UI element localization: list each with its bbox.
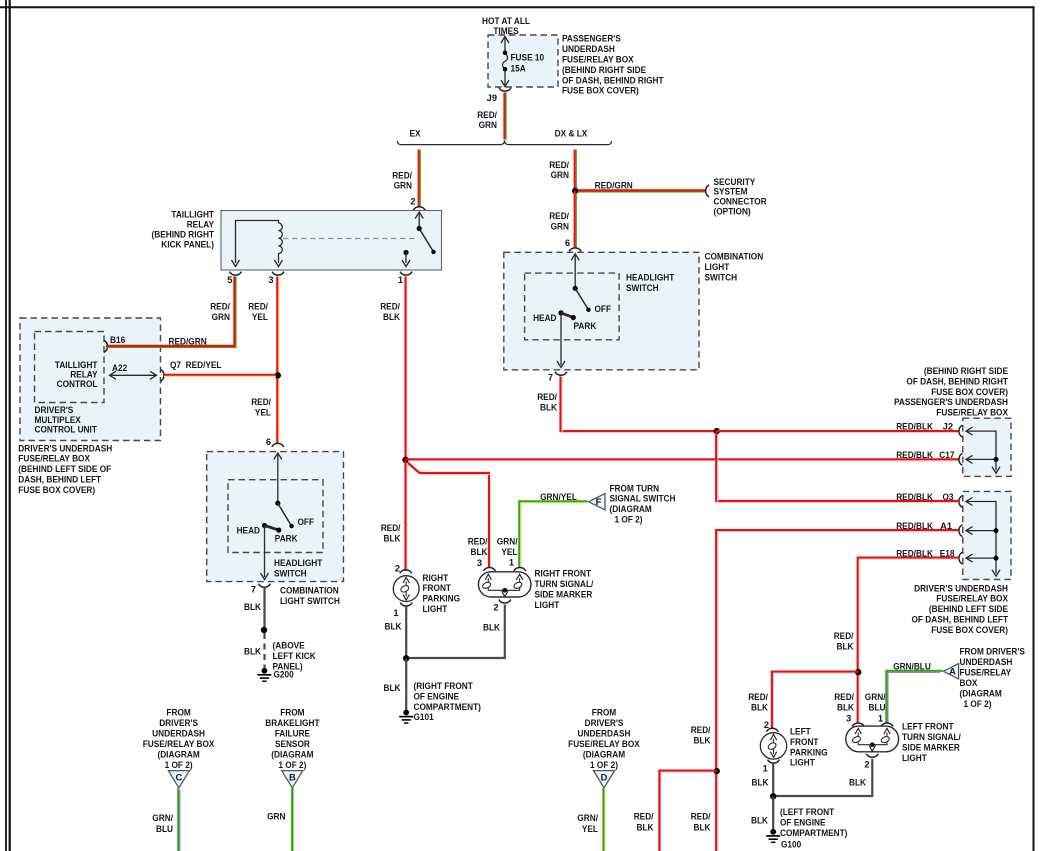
wire BLK left front turn signal to junction [774, 759, 872, 796]
wire GRN/YEL from connector D [602, 788, 604, 851]
svg-text:1: 1 [398, 275, 403, 285]
connector A triangle [943, 664, 958, 679]
wire BLK junction to G101 [405, 659, 407, 712]
svg-text:2: 2 [395, 563, 400, 573]
connector F triangle [589, 494, 605, 510]
svg-text:G200: G200 [274, 670, 294, 680]
svg-text:GRN/: GRN/ [152, 813, 173, 823]
svg-text:BLK: BLK [837, 702, 854, 712]
svg-text:OF ENGINE: OF ENGINE [780, 818, 826, 828]
svg-text:PARK: PARK [574, 321, 597, 331]
label TAILLIGHT RELAY CONTROL [55, 360, 98, 389]
svg-text:1: 1 [878, 714, 883, 724]
connector security system [706, 185, 709, 197]
svg-text:(BEHIND RIGHT: (BEHIND RIGHT [152, 230, 215, 240]
svg-text:SENSOR: SENSOR [275, 739, 310, 749]
svg-text:RED/: RED/ [537, 392, 557, 402]
svg-text:UNDERDASH: UNDERDASH [578, 728, 631, 738]
connector J9 [499, 88, 511, 91]
svg-text:HEAD: HEAD [237, 525, 261, 535]
svg-text:RED/GRN: RED/GRN [595, 180, 633, 190]
wire BLK right front turn signal to junction [407, 605, 505, 659]
wire RED/GRN from J9 to brace [503, 93, 505, 140]
label FROM DRIVER'S UNDERDASH FUSE/RELAY BOX (DIAGRAM 1 OF 2) above D [568, 707, 640, 770]
svg-text:D: D [601, 773, 608, 783]
svg-text:BLK: BLK [849, 777, 866, 787]
label (RIGHT FRONT OF ENGINE COMPARTMENT) [414, 681, 481, 712]
option split brace EX / DX & LX [398, 140, 612, 144]
svg-text:RED/: RED/ [748, 692, 768, 702]
connector C triangle [168, 771, 189, 788]
svg-text:PASSENGER'S UNDERDASH: PASSENGER'S UNDERDASH [894, 397, 1008, 407]
svg-text:GRN/YEL: GRN/YEL [540, 492, 577, 502]
svg-text:OF DASH, BEHIND LEFT: OF DASH, BEHIND LEFT [912, 615, 1009, 625]
svg-text:1: 1 [763, 763, 768, 773]
svg-text:FUSE BOX COVER): FUSE BOX COVER) [562, 86, 639, 96]
label LEFT FRONT TURN SIGNAL/ SIDE MARKER LIGHT [902, 721, 961, 763]
svg-text:(DIAGRAM: (DIAGRAM [583, 749, 626, 759]
svg-text:3: 3 [477, 558, 482, 568]
connector C17 [959, 453, 962, 465]
svg-text:(BEHIND LEFT SIDE OF: (BEHIND LEFT SIDE OF [18, 464, 111, 474]
svg-text:OF ENGINE: OF ENGINE [414, 691, 460, 701]
svg-text:YEL: YEL [582, 824, 598, 834]
svg-text:BOX: BOX [960, 678, 979, 688]
node junction BLK G100 [770, 793, 776, 799]
svg-text:LEFT KICK: LEFT KICK [273, 651, 316, 661]
wire GRN/BLU connector A to left front turn signal pin 1 [886, 661, 942, 723]
wire RED/GRN to security system connector [578, 189, 706, 191]
wire RED/BLK A1 branch [716, 530, 958, 851]
svg-text:Q7 RED/YEL: Q7 RED/YEL [170, 360, 222, 370]
svg-text:BRAKELIGHT: BRAKELIGHT [265, 718, 319, 728]
pin 7 of upper combination light switch [555, 372, 567, 375]
svg-text:(ABOVE: (ABOVE [273, 640, 305, 650]
svg-text:SWITCH: SWITCH [626, 283, 659, 293]
svg-text:MULTIPLEX: MULTIPLEX [35, 415, 82, 425]
svg-text:BLK: BLK [244, 602, 261, 612]
svg-text:RED/: RED/ [634, 811, 654, 821]
node junction to security connector [572, 188, 578, 194]
taillight relay box [221, 211, 442, 271]
svg-text:TURN SIGNAL/: TURN SIGNAL/ [902, 732, 961, 742]
svg-text:2: 2 [864, 759, 869, 769]
svg-text:FUSE/RELAY BOX: FUSE/RELAY BOX [936, 594, 1008, 604]
svg-text:LIGHT: LIGHT [535, 600, 560, 610]
page frame top border [0, 6, 1035, 8]
svg-text:DRIVER'S: DRIVER'S [585, 718, 624, 728]
pin 2 of left front turn signal [866, 754, 878, 757]
label COMBINATION LIGHT SWITCH upper [705, 251, 764, 282]
svg-text:C: C [175, 773, 182, 783]
svg-text:1 OF 2): 1 OF 2) [964, 699, 992, 709]
wire RED/BLK junction to C17 [406, 458, 959, 460]
label FROM DRIVER'S UNDERDASH FUSE/RELAY BOX (DIAGRAM 1 OF 2) above C [143, 707, 215, 770]
svg-text:FROM: FROM [280, 707, 305, 717]
label SECURITY SYSTEM CONNECTOR (OPTION) [714, 177, 767, 217]
svg-text:DRIVER'S: DRIVER'S [35, 405, 74, 415]
node junction A1 wire bottom [714, 768, 720, 774]
svg-text:SECURITY: SECURITY [714, 177, 757, 187]
wire RED/GRN junction to combination light switch pin 6 [574, 191, 576, 247]
svg-text:HEAD: HEAD [533, 313, 557, 323]
svg-text:FAILURE: FAILURE [275, 728, 310, 738]
svg-text:TURN SIGNAL/: TURN SIGNAL/ [535, 579, 594, 589]
connector Q7 [161, 369, 164, 381]
wire RED/YEL Q7 to junction [164, 374, 276, 376]
headlight switch contact lower [261, 453, 294, 580]
ground G200 [257, 668, 293, 681]
svg-text:FUSE/RELAY BOX: FUSE/RELAY BOX [568, 739, 640, 749]
svg-text:OF DASH, BEHIND RIGHT: OF DASH, BEHIND RIGHT [906, 376, 1008, 386]
label FROM TURN SIGNAL SWITCH (DIAGRAM 1 OF 2) [610, 483, 676, 524]
label (ABOVE LEFT KICK PANEL) [273, 640, 316, 671]
label RIGHT FRONT PARKING LIGHT [423, 573, 461, 614]
connector O3 [959, 496, 962, 508]
svg-text:BLK: BLK [637, 822, 654, 832]
node junction E18 wire to left front lights [855, 669, 861, 675]
svg-text:RED/: RED/ [691, 811, 711, 821]
pin 1 of right front parking light [400, 603, 412, 606]
svg-text:LIGHT: LIGHT [902, 753, 927, 763]
svg-text:HEADLIGHT: HEADLIGHT [274, 558, 323, 568]
svg-text:C17: C17 [939, 450, 954, 460]
wire BLK pin 7 to junction [263, 588, 265, 630]
svg-text:(DIAGRAM: (DIAGRAM [271, 749, 314, 759]
driver's underdash fuse/relay box right (dashed) [963, 491, 1011, 579]
wire RED/BLK branch to bottom left [659, 771, 716, 851]
svg-text:FROM TURN: FROM TURN [610, 483, 660, 493]
svg-text:BLK: BLK [752, 778, 769, 788]
wire RED/GRN relay pin 5 to B16 [106, 277, 234, 346]
label DRIVER'S MULTIPLEX CONTROL UNIT [35, 405, 98, 435]
svg-text:RED/: RED/ [381, 523, 401, 533]
svg-text:5: 5 [227, 275, 232, 285]
svg-text:YEL: YEL [255, 407, 271, 417]
svg-text:FUSE BOX COVER): FUSE BOX COVER) [18, 485, 95, 495]
svg-text:F: F [596, 497, 602, 507]
svg-text:B: B [289, 773, 296, 783]
svg-text:COMBINATION: COMBINATION [705, 251, 764, 261]
svg-text:6: 6 [266, 437, 271, 447]
node junction J2 wire [714, 428, 720, 434]
driver's multiplex control unit box (dashed) [20, 318, 161, 441]
svg-text:BLK: BLK [694, 822, 711, 832]
svg-text:BLK: BLK [383, 312, 400, 322]
svg-text:FROM: FROM [592, 707, 617, 717]
page frame right border [1033, 6, 1035, 851]
combination light switch box upper (dashed) [504, 252, 699, 369]
svg-text:FRONT: FRONT [790, 737, 819, 747]
svg-text:15A: 15A [511, 64, 526, 74]
svg-text:1: 1 [393, 608, 398, 618]
svg-text:DASH, BEHIND LEFT: DASH, BEHIND LEFT [18, 475, 101, 485]
label TAILLIGHT RELAY (BEHIND RIGHT KICK PANEL) [152, 210, 215, 250]
svg-text:HOT AT ALL: HOT AT ALL [482, 16, 530, 26]
page frame left inner line [5, 0, 7, 851]
svg-text:FUSE 10: FUSE 10 [511, 53, 545, 63]
svg-text:G101: G101 [414, 712, 434, 722]
label (BEHIND RIGHT SIDE OF DASH, BEHIND RIGHT FUSE BOX COVER) PASSENGER'S UNDERDASH FUSE/RELAY BOX [894, 366, 1009, 418]
pin 7 of lower combination light switch [259, 584, 271, 587]
pin 1 of left front parking light [768, 760, 780, 763]
svg-text:FROM DRIVER'S: FROM DRIVER'S [960, 647, 1025, 657]
label DRIVER'S UNDERDASH FUSE/RELAY BOX (BEHIND LEFT SIDE OF DASH, BEHIND LEFT FUSE BOX COVER) [18, 443, 112, 495]
svg-text:(DIAGRAM: (DIAGRAM [157, 749, 200, 759]
svg-text:LIGHT SWITCH: LIGHT SWITCH [280, 596, 340, 606]
svg-text:SWITCH: SWITCH [274, 568, 307, 578]
wire GRN/BLU from connector C [177, 788, 179, 851]
svg-text:BLK: BLK [483, 623, 500, 633]
connector D triangle [594, 771, 615, 788]
svg-text:OFF: OFF [595, 304, 612, 314]
svg-text:LEFT: LEFT [790, 727, 811, 737]
svg-text:COMPARTMENT): COMPARTMENT) [414, 702, 481, 712]
wire RED/GRN EX branch to relay pin 2 [418, 150, 420, 207]
svg-text:RELAY: RELAY [187, 220, 215, 230]
headlight switch inner box lower (dashed) [228, 480, 323, 553]
svg-text:LIGHT: LIGHT [705, 262, 730, 272]
svg-text:GRN: GRN [212, 312, 231, 322]
svg-text:DRIVER'S UNDERDASH: DRIVER'S UNDERDASH [18, 443, 112, 453]
svg-text:RED/: RED/ [834, 631, 854, 641]
svg-text:FUSE/RELAY BOX: FUSE/RELAY BOX [562, 55, 634, 65]
svg-text:RED/: RED/ [380, 301, 400, 311]
svg-text:FUSE/RELAY BOX: FUSE/RELAY BOX [18, 454, 90, 464]
svg-text:TAILLIGHT: TAILLIGHT [55, 360, 98, 370]
label RIGHT FRONT TURN SIGNAL/ SIDE MARKER LIGHT [535, 569, 594, 611]
svg-text:2: 2 [493, 603, 498, 613]
svg-text:(DIAGRAM: (DIAGRAM [960, 689, 1003, 699]
svg-text:SIDE MARKER: SIDE MARKER [902, 742, 960, 752]
wire RED/BLK junction down to right front parking light [404, 460, 406, 571]
svg-text:KICK PANEL): KICK PANEL) [161, 240, 214, 250]
svg-text:GRN/BLU: GRN/BLU [893, 661, 931, 671]
svg-text:RED/: RED/ [549, 160, 569, 170]
svg-text:SIDE MARKER: SIDE MARKER [535, 590, 593, 600]
svg-text:GRN: GRN [551, 222, 570, 232]
svg-text:PARKING: PARKING [423, 594, 461, 604]
wire RED/BLK junction down to O3 [716, 431, 958, 501]
wire RED/BLK junction to right front turn signal pin 3 [408, 463, 491, 568]
node junction BLK G101 [403, 655, 409, 661]
wire GRN/YEL from connector F to turn signal pin 1 [519, 492, 587, 567]
svg-text:(BEHIND RIGHT SIDE: (BEHIND RIGHT SIDE [562, 65, 646, 75]
svg-text:2: 2 [764, 720, 769, 730]
svg-text:CONNECTOR: CONNECTOR [714, 197, 767, 207]
label FROM DRIVER'S UNDERDASH FUSE/RELAY BOX (DIAGRAM 1 OF 2) right [960, 647, 1025, 710]
svg-text:PARKING: PARKING [790, 747, 828, 757]
svg-text:DX & LX: DX & LX [555, 129, 588, 139]
page frame left border [9, 0, 11, 851]
ground G101 [399, 710, 434, 723]
svg-text:LIGHT: LIGHT [423, 604, 448, 614]
connector J2 [959, 425, 962, 437]
wire RED/BLK relay pin 1 down to junction [404, 277, 406, 461]
svg-text:BLK: BLK [837, 642, 854, 652]
bulb right front turn signal / side marker [478, 572, 531, 597]
svg-text:2: 2 [410, 197, 415, 207]
svg-text:PASSENGER'S: PASSENGER'S [562, 34, 621, 44]
relay switch contact [402, 212, 436, 267]
wire RED/GRN DX & LX branch [574, 150, 576, 190]
internal link J2/C17 [966, 427, 1000, 473]
svg-text:GRN: GRN [267, 812, 286, 822]
svg-text:FROM: FROM [166, 707, 191, 717]
svg-text:SYSTEM: SYSTEM [714, 187, 748, 197]
svg-text:RIGHT FRONT: RIGHT FRONT [535, 569, 592, 579]
svg-text:SIGNAL SWITCH: SIGNAL SWITCH [610, 494, 676, 504]
svg-text:FUSE BOX COVER): FUSE BOX COVER) [931, 387, 1008, 397]
svg-text:B16: B16 [110, 335, 125, 345]
svg-text:RED/: RED/ [549, 211, 569, 221]
svg-text:LEFT FRONT: LEFT FRONT [902, 721, 954, 731]
svg-text:FRONT: FRONT [423, 583, 452, 593]
headlight switch contact upper [557, 254, 591, 368]
svg-text:RED/: RED/ [468, 537, 488, 547]
svg-text:GRN: GRN [479, 120, 498, 130]
wire RED/BLK junction to left front parking light pin 2 [772, 672, 858, 729]
svg-text:GRN: GRN [394, 180, 413, 190]
svg-text:GRN/: GRN/ [865, 692, 886, 702]
label FROM BRAKELIGHT FAILURE SENSOR (DIAGRAM 1 OF 2) above B [265, 707, 319, 770]
svg-text:RED/: RED/ [210, 301, 230, 311]
svg-text:BLK: BLK [244, 646, 261, 656]
svg-text:SWITCH: SWITCH [705, 272, 738, 282]
label LEFT FRONT PARKING LIGHT [790, 727, 828, 768]
svg-text:UNDERDASH: UNDERDASH [562, 44, 615, 54]
svg-text:1: 1 [509, 558, 514, 568]
connector E18 [959, 552, 962, 564]
ground G100 [766, 829, 801, 850]
combination light switch box lower (dashed) [207, 452, 344, 582]
label PASSENGER'S UNDERDASH FUSE/RELAY BOX [562, 34, 664, 96]
svg-text:1 OF 2): 1 OF 2) [165, 760, 193, 770]
svg-text:1 OF 2): 1 OF 2) [590, 760, 618, 770]
svg-text:OF DASH, BEHIND RIGHT: OF DASH, BEHIND RIGHT [562, 75, 664, 85]
taillight relay control inner box (dashed) [35, 332, 105, 403]
svg-text:FUSE/RELAY BOX: FUSE/RELAY BOX [936, 408, 1008, 418]
wire RED/YEL relay pin 3 down to headlight switch pin 6 [276, 277, 278, 444]
svg-text:GRN/: GRN/ [577, 813, 598, 823]
svg-text:COMBINATION: COMBINATION [280, 586, 339, 596]
node junction Q7 / pin 3 wire [275, 372, 281, 378]
svg-text:RED/: RED/ [392, 170, 412, 180]
svg-text:3: 3 [268, 275, 273, 285]
svg-text:(BEHIND RIGHT SIDE: (BEHIND RIGHT SIDE [924, 366, 1008, 376]
relay actuation dashed link [283, 238, 415, 240]
wire RED/BLK junction to J2 connector [717, 430, 959, 432]
svg-text:7: 7 [548, 373, 553, 383]
svg-text:BLK: BLK [384, 683, 401, 693]
svg-text:RED/: RED/ [251, 397, 271, 407]
svg-text:J9: J9 [487, 93, 497, 103]
svg-text:DRIVER'S UNDERDASH: DRIVER'S UNDERDASH [914, 583, 1008, 593]
svg-text:A: A [949, 667, 956, 677]
wire BLK dashed to G200 [263, 633, 265, 668]
svg-text:RED/: RED/ [248, 301, 268, 311]
svg-text:(BEHIND LEFT SIDE: (BEHIND LEFT SIDE [929, 604, 1008, 614]
svg-text:1 OF 2): 1 OF 2) [278, 760, 306, 770]
svg-text:RED/: RED/ [834, 692, 854, 702]
svg-text:(LEFT FRONT: (LEFT FRONT [780, 807, 834, 817]
pin 2 of right front turn signal [499, 600, 511, 603]
svg-text:BLU: BLU [869, 702, 886, 712]
svg-text:BLK: BLK [385, 621, 402, 631]
wire BLK right front parking light to junction [405, 607, 407, 659]
connector A1 [959, 525, 962, 537]
wire GRN from connector B [291, 788, 293, 851]
svg-text:FUSE BOX COVER): FUSE BOX COVER) [931, 625, 1008, 635]
internal link O3/A1/E18 [966, 498, 1000, 577]
svg-text:COMPARTMENT): COMPARTMENT) [780, 828, 847, 838]
svg-text:GRN: GRN [551, 170, 570, 180]
svg-text:OFF: OFF [298, 517, 315, 527]
connector B triangle [282, 771, 303, 788]
svg-text:FUSE/RELAY: FUSE/RELAY [960, 668, 1012, 678]
passenger's underdash fuse/relay box (top, dashed) [488, 35, 558, 87]
svg-text:RELAY: RELAY [70, 370, 98, 380]
bulb left front turn signal / side marker [846, 726, 899, 752]
svg-text:YEL: YEL [252, 312, 268, 322]
svg-text:1 OF 2): 1 OF 2) [615, 515, 643, 525]
svg-text:BLU: BLU [156, 824, 173, 834]
wire BLK junction to G100 [772, 797, 774, 831]
passenger's underdash fuse/relay box right (dashed) [963, 418, 1011, 476]
node junction BLK G200 [261, 627, 267, 633]
svg-text:BLK: BLK [751, 815, 768, 825]
svg-text:DRIVER'S: DRIVER'S [159, 718, 198, 728]
label DRIVER'S UNDERDASH FUSE/RELAY BOX (BEHIND LEFT SIDE OF DASH, BEHIND LEFT FUSE BOX COVER) [912, 583, 1009, 635]
bulb left front parking light [760, 733, 786, 759]
svg-text:RED/: RED/ [691, 725, 711, 735]
wire RED/BLK E18 branch [858, 558, 959, 723]
svg-text:BLK: BLK [694, 736, 711, 746]
bulb right front parking light [393, 576, 419, 602]
svg-text:CONTROL UNIT: CONTROL UNIT [35, 424, 98, 434]
svg-text:7: 7 [251, 584, 256, 594]
svg-text:UNDERDASH: UNDERDASH [152, 728, 205, 738]
svg-text:3: 3 [846, 714, 851, 724]
svg-text:UNDERDASH: UNDERDASH [960, 657, 1013, 667]
svg-text:BLK: BLK [540, 403, 557, 413]
svg-text:BLK: BLK [471, 547, 488, 557]
svg-text:TAILLIGHT: TAILLIGHT [171, 210, 214, 220]
node junction RED/BLK center [402, 457, 408, 463]
svg-text:CONTROL: CONTROL [57, 379, 98, 389]
svg-text:PARK: PARK [275, 534, 298, 544]
svg-text:(DIAGRAM: (DIAGRAM [610, 504, 653, 514]
svg-text:G100: G100 [781, 840, 801, 850]
connector B16 [104, 340, 107, 352]
relay coil [232, 221, 283, 267]
svg-text:FUSE/RELAY BOX: FUSE/RELAY BOX [143, 739, 215, 749]
svg-text:A22: A22 [112, 363, 127, 373]
svg-text:HEADLIGHT: HEADLIGHT [626, 273, 675, 283]
svg-text:GRN/: GRN/ [497, 537, 518, 547]
wire RED/BLK pin 7 to J2 junction [561, 377, 717, 432]
label (LEFT FRONT OF ENGINE COMPARTMENT) [780, 807, 847, 838]
wire BLK left front parking light to junction [772, 764, 774, 797]
svg-text:LIGHT: LIGHT [790, 758, 815, 768]
svg-text:EX: EX [410, 129, 422, 139]
svg-text:RED/BLK: RED/BLK [896, 450, 933, 460]
svg-text:RED/: RED/ [477, 110, 497, 120]
svg-text:BLK: BLK [751, 702, 768, 712]
svg-text:(OPTION): (OPTION) [714, 207, 751, 217]
svg-text:RIGHT: RIGHT [423, 573, 449, 583]
svg-text:(RIGHT FRONT: (RIGHT FRONT [414, 681, 474, 691]
